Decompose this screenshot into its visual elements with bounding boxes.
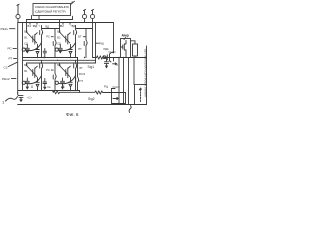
svg-text:РШ: РШ <box>99 42 104 46</box>
row bus 1 H3 <box>23 58 78 61</box>
svg-text:Д: Д <box>31 85 33 89</box>
svg-text:В2: В2 <box>57 36 61 39</box>
svg-text:(СДВИГОВЫЙ РЕГИСТР): (СДВИГОВЫЙ РЕГИСТР) <box>35 9 66 13</box>
amp transistor <box>121 41 127 58</box>
cell11 diag wire <box>27 32 37 43</box>
cell 21 <box>22 60 56 90</box>
svg-text:Sıg1: Sıg1 <box>88 65 95 69</box>
cell21 cap left <box>25 78 29 89</box>
cell21 gate feed <box>26 63 28 66</box>
terminal T3 <box>91 9 93 14</box>
cap C1 sig1 <box>104 58 108 68</box>
cell22 diag wire <box>60 66 70 77</box>
cell12 node circle <box>55 48 58 51</box>
svg-text:В1: В1 <box>24 70 28 73</box>
cell11 cap left <box>25 45 29 53</box>
svg-text:⊣В2: ⊣В2 <box>58 24 64 28</box>
svg-text:ВД: ВД <box>46 25 50 28</box>
cell12 photodiode <box>69 45 73 58</box>
cell12 transistor chain 1 <box>74 26 77 58</box>
row bus 3 H5 <box>27 62 96 64</box>
cell 22 <box>55 58 86 91</box>
cell 11 <box>22 20 59 59</box>
cell21 cap right <box>43 79 47 89</box>
cell11 cap mid <box>43 49 46 58</box>
cell12 bus stubs <box>63 23 70 25</box>
svg-text:РЕ11: РЕ11 <box>1 27 9 31</box>
array right edge V7 <box>95 23 97 64</box>
svg-text:⊣ВД: ⊣ВД <box>70 24 76 28</box>
array left edge V2 <box>22 23 24 91</box>
svg-text:РС: РС <box>46 68 50 72</box>
dots H3 <box>43 57 44 58</box>
cell22 transistor chain 1 <box>74 60 77 90</box>
cell22 photodiode <box>69 78 73 91</box>
cell22 transistor chain 2 <box>76 58 79 91</box>
junction dot T3 <box>92 22 94 24</box>
cell11 transistor mid <box>33 33 38 44</box>
svg-text:ПТ: ПТ <box>78 47 82 51</box>
leader 4 <box>71 1 75 4</box>
amp resistor box <box>133 44 138 56</box>
cell12 junction <box>70 57 71 58</box>
svg-text:РС: РС <box>46 35 50 39</box>
svg-text:Фиг. 6: Фиг. 6 <box>66 112 79 117</box>
cell12 transistor mid <box>66 33 71 44</box>
svg-text:РЕ12: РЕ12 <box>2 77 10 81</box>
svg-text:Амр: Амр <box>122 34 129 38</box>
cell21 transistor chain 1 <box>40 60 43 90</box>
svg-text:Sıg2: Sıg2 <box>88 97 95 101</box>
small arrow mid right <box>113 58 117 65</box>
cell11 gate feed <box>26 20 28 33</box>
cell21 diag wire <box>27 66 37 77</box>
svg-text:ПТ: ПТ <box>80 79 84 83</box>
wire right bus H <box>93 56 147 59</box>
wire top bus H1 <box>18 22 114 24</box>
cell12 cap left <box>58 45 62 53</box>
bottom small box <box>112 89 126 104</box>
cell11 swoop wire <box>25 43 41 51</box>
svg-text:~Ст: ~Ст <box>27 96 33 100</box>
column line V9 <box>118 58 120 105</box>
svg-text:С3: С3 <box>4 66 8 70</box>
column line V12 <box>133 58 135 85</box>
column line V10 <box>123 58 125 105</box>
clk1 transistor <box>103 56 106 59</box>
cell 12 <box>55 20 92 59</box>
terminal T2 <box>83 9 85 14</box>
svg-text:В1: В1 <box>24 36 28 39</box>
junction dots bottom edge <box>27 90 28 91</box>
cell21 transistor mid <box>33 66 38 77</box>
svg-text:1: 1 <box>2 100 5 105</box>
cell12 swoop wire <box>58 43 75 51</box>
cell11 bus stubs <box>30 23 37 25</box>
bottom bus H8 <box>18 104 147 106</box>
cell11 junction2 <box>44 57 45 58</box>
label PSh <box>96 42 99 44</box>
cell12 gate feed <box>59 20 61 33</box>
wire left vertical V1 <box>17 23 19 94</box>
cell21 swoop wire <box>25 76 41 84</box>
cell21 photodiode D <box>36 78 40 91</box>
cell11 transistor chain 2 <box>53 29 56 58</box>
terminal T1 <box>17 4 19 14</box>
svg-text:Р: Р <box>117 63 119 67</box>
wire stub from box <box>32 16 40 20</box>
leader 3 squiggle <box>129 106 131 113</box>
cell22 cap <box>61 78 65 89</box>
cell21 node circle <box>22 81 25 84</box>
cell11 inner wire <box>42 28 60 30</box>
cell12 inner wire <box>76 28 93 30</box>
wire hook right <box>72 16 74 19</box>
svg-text:РТ: РТ <box>9 57 13 61</box>
wire row line B1 H2 <box>27 19 73 21</box>
cap CT <box>18 93 23 102</box>
svg-text:4: 4 <box>71 0 73 4</box>
svg-text:РС: РС <box>8 47 13 51</box>
cell22 gate feed <box>59 63 61 66</box>
scan circuit box U0 <box>33 4 71 16</box>
cell11 photodiode <box>36 45 40 58</box>
arrow in tall box <box>139 88 141 102</box>
svg-text:Св: Св <box>47 85 51 89</box>
column line V11 <box>128 58 130 105</box>
cell11 node circle <box>22 48 25 51</box>
svg-text:РС22: РС22 <box>79 72 86 76</box>
wire bottom corner <box>79 91 81 93</box>
cell22 transistor mid <box>66 66 71 77</box>
bottom right tall box <box>135 85 147 105</box>
svg-text:БТ: БТ <box>78 35 82 39</box>
arrow in small box <box>113 97 118 99</box>
array bottom edge H6 <box>18 90 80 92</box>
amp box <box>121 39 131 58</box>
sig2 line with resistor R2 <box>53 91 126 95</box>
svg-text:РЦ: РЦ <box>104 85 109 89</box>
cell11 transistor chain 1 <box>40 26 43 58</box>
right edge vertical <box>146 46 148 85</box>
cell11 junction <box>37 57 38 58</box>
row bus 2 H4 <box>23 59 96 61</box>
cell12 diag wire <box>60 32 70 43</box>
cell22 swoop wire <box>58 76 75 84</box>
cell21 transistor chain 2 <box>53 63 56 91</box>
wire right bus drop V8 <box>113 23 115 54</box>
svg-text:БТ: БТ <box>80 66 84 70</box>
cell12 transistor chain 2 <box>84 29 87 58</box>
cell22 node circle <box>55 81 58 84</box>
